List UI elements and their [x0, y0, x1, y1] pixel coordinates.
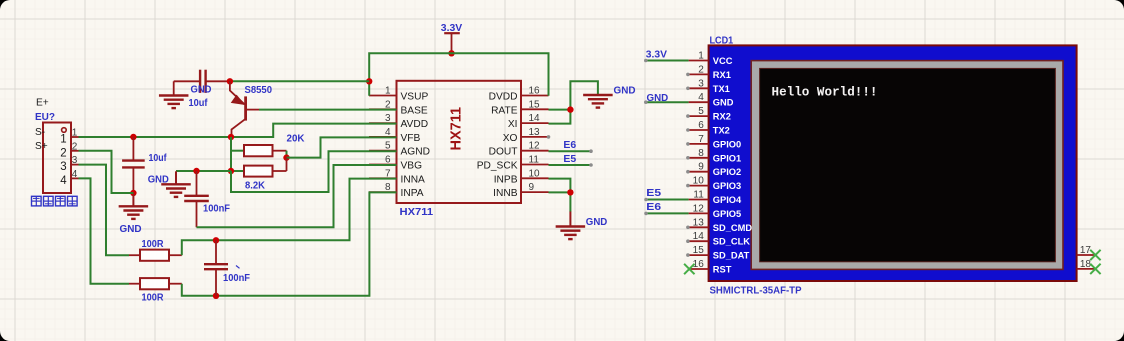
svg-text:1: 1 [385, 86, 391, 97]
svg-text:INNB: INNB [493, 188, 518, 199]
svg-text:GPIO5: GPIO5 [713, 209, 741, 219]
svg-text:8: 8 [698, 148, 704, 159]
svg-text:11: 11 [693, 190, 704, 201]
svg-text:GND: GND [713, 98, 734, 108]
label GND mid-left [148, 173, 169, 185]
svg-text:S-: S- [35, 127, 45, 138]
svg-text:GND: GND [148, 173, 169, 185]
wire INPA [182, 192, 397, 295]
node 100nF2 top junction [213, 237, 219, 243]
connector EU? pins 1-4 [60, 128, 78, 187]
wire INNA [182, 179, 397, 256]
svg-text:GPIO3: GPIO3 [713, 181, 741, 191]
wire 3.3V rail [369, 53, 548, 96]
svg-text:Hello World!!!: Hello World!!! [772, 84, 878, 99]
label 100nF first [203, 203, 231, 215]
svg-text:3: 3 [72, 155, 78, 166]
connector EU? body [43, 123, 71, 194]
label E+ [36, 98, 49, 109]
wire net E6 DOUT [549, 149, 593, 153]
label 100R second [142, 292, 164, 304]
wire INPB-INNB gnd [549, 179, 571, 212]
label 20K [287, 132, 305, 144]
wire 3.3V to VCC [644, 59, 689, 63]
svg-text:4: 4 [72, 169, 78, 180]
ground mid-left [161, 171, 191, 197]
HX711 right pins 16-9 [477, 86, 549, 200]
svg-text:10uf: 10uf [149, 152, 167, 164]
wire GND to pin4 [644, 100, 689, 104]
wire E+ row [79, 124, 397, 137]
svg-text:TX1: TX1 [713, 84, 730, 94]
no-ERC cross pin18 [1090, 264, 1100, 274]
label 8.2K [245, 180, 265, 192]
node 8.2K left junction [228, 168, 234, 174]
wire 20K right to junction [286, 151, 288, 158]
svg-text:13: 13 [529, 127, 541, 138]
node collector junction [228, 134, 234, 140]
svg-text:6: 6 [385, 155, 391, 166]
no-ERC cross RST [684, 264, 694, 274]
svg-text:VBG: VBG [401, 161, 423, 172]
svg-text:GND: GND [191, 84, 212, 96]
node cap1 bottom junction [130, 190, 136, 196]
svg-text:100nF: 100nF [223, 272, 251, 284]
node divider junction [283, 154, 289, 160]
node INNB junction [567, 189, 573, 195]
svg-text:EU?: EU? [35, 111, 55, 123]
label S+ [35, 141, 48, 152]
svg-text:GPIO1: GPIO1 [713, 153, 741, 163]
svg-text:SD_CLK: SD_CLK [713, 237, 750, 247]
wire RATE-XI gnd [549, 81, 598, 123]
ground near RATE [583, 95, 613, 108]
resistor R? 20K [231, 145, 287, 156]
node emitter junction [227, 78, 233, 84]
wire gnd row [176, 170, 231, 172]
net label E6 LCD [646, 201, 661, 213]
label 接传感器 [32, 196, 78, 206]
svg-text:4: 4 [385, 127, 391, 138]
node 3.3V rail junction [448, 50, 454, 56]
svg-text:RX2: RX2 [713, 112, 731, 122]
svg-text:GND: GND [614, 85, 636, 97]
svg-text:E+: E+ [36, 98, 49, 109]
svg-text:GND: GND [120, 223, 142, 235]
wire connector pin2 to gnd [79, 151, 134, 193]
wire AGND [231, 151, 397, 192]
resistor R? 8.2K [231, 158, 287, 177]
wire VFB [287, 137, 397, 157]
svg-text:RX1: RX1 [713, 70, 731, 80]
label 10uf mid [149, 152, 167, 164]
label GND near RATE [614, 85, 636, 97]
svg-text:20K: 20K [287, 132, 305, 144]
svg-text:14: 14 [693, 231, 705, 242]
capacitor C? 10uf top-left [174, 70, 230, 96]
svg-text:XI: XI [508, 119, 518, 130]
LCD left pins 1-16 [689, 51, 753, 275]
svg-text:VSUP: VSUP [401, 92, 429, 103]
capacitor C? 100nF second [204, 240, 228, 295]
svg-text:DOUT: DOUT [489, 147, 518, 158]
svg-text:2: 2 [60, 147, 66, 159]
svg-text:BASE: BASE [401, 105, 428, 116]
svg-text:12: 12 [693, 203, 705, 214]
LCD screen text Hello World!!! [772, 84, 878, 99]
svg-text:100R: 100R [142, 238, 164, 250]
svg-text:RATE: RATE [491, 105, 518, 116]
resistor R? 100R second [129, 278, 182, 289]
no-ERC cross pin17 [1090, 250, 1100, 260]
LCD right pins 17-18 [1077, 245, 1095, 270]
label GND below INNB [586, 216, 608, 228]
svg-text:10: 10 [529, 168, 541, 179]
svg-text:13: 13 [693, 217, 705, 228]
label 10uf top-left [189, 97, 208, 109]
wire E6 to GPIO5 [644, 212, 688, 216]
net label GND LCD [647, 92, 669, 104]
svg-text:VCC: VCC [713, 56, 733, 66]
svg-text:HX711: HX711 [400, 206, 434, 218]
svg-text:GPIO4: GPIO4 [713, 195, 742, 205]
svg-text:1: 1 [60, 134, 66, 146]
svg-text:SD_DAT: SD_DAT [713, 251, 750, 261]
designator HX711 [400, 206, 434, 218]
svg-text:11: 11 [529, 155, 540, 166]
designator EU? [35, 111, 55, 123]
label GND top-left [191, 84, 212, 96]
ground below INNB [556, 212, 586, 240]
svg-text:6: 6 [698, 120, 704, 131]
svg-text:E5: E5 [563, 153, 576, 165]
svg-text:10uf: 10uf [189, 97, 208, 109]
designator LCD1 [710, 35, 734, 47]
svg-text:1: 1 [72, 128, 78, 139]
svg-text:3: 3 [60, 161, 66, 173]
svg-text:TX2: TX2 [713, 126, 730, 136]
LCD1 body [709, 45, 1077, 281]
label SHMICTRL-35AF-TP [710, 284, 802, 296]
net label E5 [563, 153, 576, 165]
label S8550 [245, 84, 273, 96]
node VSUP riser junction [366, 78, 372, 84]
wire connector pin3 [79, 165, 130, 256]
svg-text:XO: XO [503, 133, 518, 144]
wire BASE [259, 109, 397, 111]
wire divider left riser [230, 137, 232, 171]
svg-text:8.2K: 8.2K [245, 180, 265, 192]
svg-text:9: 9 [698, 162, 704, 173]
svg-text:5: 5 [385, 141, 391, 152]
svg-text:100nF: 100nF [203, 203, 231, 215]
svg-text:VFB: VFB [401, 133, 421, 144]
svg-text:E6: E6 [646, 201, 661, 213]
svg-text:INPA: INPA [401, 188, 424, 199]
label HX711 vertical [449, 107, 465, 151]
svg-text:1: 1 [698, 51, 704, 62]
wire emitter to VSUP riser [230, 80, 369, 82]
svg-text:E6: E6 [563, 139, 576, 151]
svg-text:3: 3 [698, 78, 704, 89]
op-amp U? HX711 body [397, 81, 522, 203]
svg-text:SHMICTRL-35AF-TP: SHMICTRL-35AF-TP [710, 284, 802, 296]
svg-text:15: 15 [693, 245, 705, 256]
svg-text:LCD1: LCD1 [710, 35, 734, 47]
svg-text:15: 15 [529, 99, 541, 110]
svg-text:GND: GND [586, 216, 608, 228]
capacitor C? 10uf mid [122, 137, 145, 193]
net label 3.3V LCD [646, 48, 667, 60]
svg-text:100R: 100R [142, 292, 164, 304]
LCD screen frame [751, 61, 1063, 270]
svg-text:12: 12 [529, 141, 541, 152]
svg-text:GPIO2: GPIO2 [713, 167, 741, 177]
resistor R? 100R first [129, 250, 182, 261]
svg-text:9: 9 [529, 182, 535, 193]
svg-text:2: 2 [698, 64, 704, 75]
svg-text:4: 4 [698, 92, 704, 103]
net label E5 LCD [646, 187, 661, 199]
svg-text:2: 2 [72, 141, 78, 152]
svg-text:7: 7 [698, 134, 704, 145]
capacitor C? 100nF first [184, 171, 209, 227]
LCD unconnected pin dots [686, 73, 690, 257]
svg-text:4: 4 [60, 175, 67, 187]
svg-text:5: 5 [698, 106, 704, 117]
wire connector pin4 [79, 178, 130, 283]
power 3.3V symbol [441, 22, 462, 53]
svg-text:GPIO0: GPIO0 [713, 139, 741, 149]
svg-text:16: 16 [529, 86, 541, 97]
svg-text:AVDD: AVDD [401, 119, 429, 130]
svg-text:INNA: INNA [401, 174, 426, 185]
svg-text:HX711: HX711 [449, 107, 465, 151]
net label E6 [563, 139, 576, 151]
node cap1 top junction [130, 134, 136, 140]
ground below cap1 [119, 193, 148, 219]
transistor Q? S8550 [230, 81, 259, 137]
gray dot pin13 XO end [547, 135, 551, 139]
svg-text:S8550: S8550 [245, 84, 273, 96]
label 100nF second [223, 266, 251, 285]
HX711 left pins 1-8 [369, 86, 430, 200]
label S- [35, 127, 45, 138]
svg-text:SD_CMD: SD_CMD [713, 223, 753, 233]
svg-text:14: 14 [529, 113, 541, 124]
wire E5 to GPIO4 [644, 198, 688, 202]
wire net E5 PD_SCK [549, 163, 593, 167]
LCD screen black area [760, 68, 1056, 261]
label 100R first [142, 238, 164, 250]
svg-text:10: 10 [693, 176, 705, 187]
svg-text:3.3V: 3.3V [646, 48, 667, 60]
svg-text:E5: E5 [646, 187, 661, 199]
svg-text:S+: S+ [35, 141, 48, 152]
svg-text:DVDD: DVDD [489, 92, 518, 103]
node RATE junction [567, 106, 573, 112]
svg-text:AGND: AGND [401, 147, 430, 158]
svg-text:PD_SCK: PD_SCK [477, 161, 518, 172]
label GND below cap1 [120, 223, 142, 235]
node 100nF top junction [193, 168, 199, 174]
node 100nF2 bottom junction [213, 293, 219, 299]
ground top-left [159, 96, 189, 109]
wire VBG [197, 165, 397, 227]
svg-text:RST: RST [713, 265, 732, 275]
svg-text:3: 3 [385, 113, 391, 124]
svg-text:INPB: INPB [494, 174, 518, 185]
svg-text:GND: GND [647, 92, 669, 104]
